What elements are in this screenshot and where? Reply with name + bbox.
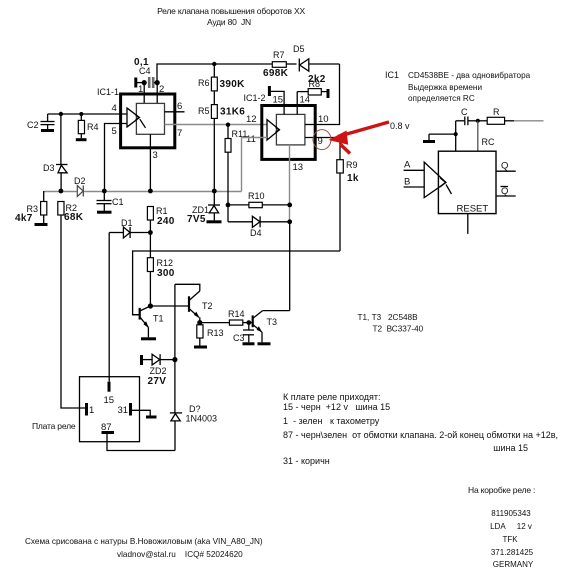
resistor R5 (198, 91, 245, 205)
svg-text:C1: C1 (112, 197, 124, 207)
relay board box (32, 377, 140, 442)
svg-text:R14: R14 (228, 309, 245, 319)
terminal right of R8 (327, 89, 330, 98)
node RC junction (476, 119, 480, 123)
mono diagram ground (423, 134, 435, 141)
pin 9 wire (305, 136, 340, 147)
input A wire (404, 160, 425, 171)
resistor R3 (15, 191, 47, 224)
svg-text:LDA 12 v: LDA 12 v (490, 522, 532, 531)
svg-text:D?: D? (189, 404, 201, 414)
resistor R14 (200, 309, 253, 325)
wire D3 branch vertical (60, 114, 62, 165)
wire T2 loop vertical to ZD2/D? (174, 284, 176, 413)
svg-text:0.8 v: 0.8 v (390, 121, 410, 131)
node T1 collector / T2 base junction (148, 303, 153, 308)
svg-text:9: 9 (318, 136, 323, 147)
svg-text:1N4003: 1N4003 (186, 414, 218, 424)
transistor T1 (133, 306, 164, 337)
svg-text:D2: D2 (74, 176, 86, 186)
svg-text:15: 15 (273, 95, 284, 106)
capacitor C1 (97, 191, 124, 211)
svg-text:определяется RC: определяется RC (408, 94, 475, 103)
node pin3/R1 junction (148, 189, 153, 194)
resistor R11 (225, 125, 247, 205)
svg-text:Q: Q (501, 186, 508, 197)
pin 1 label and wire (138, 83, 144, 104)
svg-text:R1: R1 (156, 206, 168, 216)
node R11 top (226, 123, 230, 127)
node junction top rail / R6 (212, 62, 216, 66)
svg-text:R4: R4 (87, 122, 99, 132)
wire T2 base (150, 305, 189, 307)
wire RC vertical (478, 121, 495, 151)
svg-text:T3: T3 (267, 317, 278, 327)
svg-text:Плата реле: Плата реле (32, 421, 76, 431)
wire T2 collector loop (175, 284, 200, 291)
svg-text:Т1, Т3 2С548В: Т1, Т3 2С548В (358, 313, 419, 322)
ground below C2 (41, 129, 54, 132)
svg-text:12: 12 (246, 114, 257, 125)
svg-text:4k7: 4k7 (15, 213, 33, 224)
svg-text:15: 15 (104, 395, 115, 406)
svg-text:87: 87 (101, 422, 112, 433)
wire pin 11 gray (242, 138, 268, 192)
pin 2 label and wire (157, 83, 164, 104)
relay pin 15 (104, 382, 115, 406)
ground below R4 (76, 138, 87, 141)
output Q-bar wire (496, 186, 516, 197)
ground below T1 (141, 337, 156, 340)
ground right of pin 31 (146, 416, 157, 419)
pin 10 wire (305, 114, 329, 125)
monostable box (438, 151, 496, 213)
IC1-2 inner box (276, 114, 305, 144)
wire D1 to relay pin 15 (108, 233, 110, 382)
svg-text:5: 5 (112, 126, 117, 137)
svg-text:87 - черн\зелен от обмотки кл: 87 - черн\зелен от обмотки клапана. 2-ой… (283, 430, 558, 440)
svg-text:vladnov@stal.ru ICQ# 520246: vladnov@stal.ru ICQ# 52024620 (117, 550, 243, 559)
relay pin 87 (101, 422, 114, 433)
diode D4 (228, 205, 290, 238)
svg-text:1k: 1k (347, 173, 359, 184)
wire T3 collector (263, 310, 290, 312)
ground below C3 (243, 342, 255, 345)
text relay wiring notes (283, 392, 558, 466)
svg-text:27V: 27V (148, 376, 167, 387)
svg-text:C2: C2 (27, 120, 39, 130)
resistor R (478, 107, 544, 124)
capacitor C (456, 107, 478, 125)
svg-text:C4: C4 (139, 66, 151, 76)
node C1/pin5 junction (102, 189, 107, 194)
svg-text:240: 240 (157, 216, 175, 227)
red arrow to pin 9 (329, 122, 390, 154)
resistor R4 (78, 114, 98, 138)
svg-text:1: 1 (89, 405, 94, 416)
diode D? 1N4003 (170, 404, 217, 451)
svg-text:31 - коричн: 31 - коричн (283, 456, 330, 466)
svg-text:T2: T2 (202, 301, 213, 311)
svg-text:6: 6 (177, 101, 182, 112)
svg-text:T1: T1 (153, 314, 164, 324)
IC1-1 inner box (136, 103, 164, 134)
svg-text:68K: 68K (64, 212, 84, 223)
wire C node vertical (455, 121, 457, 151)
svg-text:300: 300 (157, 268, 175, 279)
capacitor C2 (27, 114, 55, 130)
input B wire (404, 177, 425, 188)
ground below T3 (258, 342, 271, 345)
svg-text:D4: D4 (250, 228, 262, 238)
zener diode ZD1 (187, 205, 220, 225)
terminal left of ZD2 (140, 355, 143, 365)
node D2/R2 junction (59, 189, 64, 194)
ground below R13 (194, 346, 207, 349)
svg-text:RC: RC (482, 137, 495, 147)
svg-text:IC1-1: IC1-1 (97, 87, 119, 97)
red ellipse around pin 9 (313, 130, 331, 150)
resistor R2 (58, 202, 84, 224)
svg-text:7V5: 7V5 (187, 214, 206, 225)
text IC1 CD4538 description (385, 70, 531, 103)
resistor R1 (147, 206, 174, 258)
svg-text:10: 10 (318, 114, 329, 125)
terminal pin 15 (269, 86, 284, 114)
resistor R8 (297, 74, 326, 95)
svg-text:13: 13 (293, 162, 304, 173)
output Q wire (496, 161, 516, 172)
svg-text:7: 7 (177, 128, 182, 139)
node R10 left (226, 203, 231, 208)
pin 4 wire from C2 node (48, 103, 127, 114)
resistor R13 (197, 323, 224, 346)
wire ground to C node (429, 133, 456, 135)
pin 14 wire (297, 92, 310, 115)
svg-text:11: 11 (246, 134, 256, 145)
svg-text:R7: R7 (273, 50, 285, 60)
wire pin13 to T3 collector (289, 222, 291, 311)
node D4 right on pin13 line (287, 219, 292, 224)
reset pin wire (467, 214, 469, 234)
svg-text:На коробке реле :: На коробке реле : (468, 485, 535, 495)
diode D5 (293, 44, 309, 72)
svg-text:RESET: RESET (457, 204, 489, 215)
svg-text:R12: R12 (157, 258, 174, 268)
node R10 right on pin13 line (287, 203, 292, 208)
resistor R10 (228, 191, 290, 208)
svg-text:R8: R8 (309, 79, 321, 89)
IC1-1 comparator triangle (127, 108, 146, 128)
wire D5 to pin10 corner (315, 64, 339, 125)
text transistor types (358, 313, 424, 334)
diode D2 (74, 176, 86, 197)
svg-text:Выдержка времени: Выдержка времени (408, 83, 482, 92)
diode D1 (109, 218, 150, 238)
svg-text:4: 4 (112, 103, 117, 114)
svg-text:CD4538ВЕ - два одновибратора: CD4538ВЕ - два одновибратора (408, 71, 531, 80)
svg-text:D3: D3 (43, 163, 55, 173)
capacitor C3 (233, 323, 254, 343)
svg-text:К плате реле приходят:: К плате реле приходят: (283, 392, 381, 402)
pin 13 wire gray down (290, 145, 304, 222)
op-amp IC1-2 outer box (244, 93, 316, 159)
svg-text:390K: 390K (220, 79, 246, 90)
svg-text:шина 15: шина 15 (493, 443, 528, 453)
resistor R7 (263, 50, 289, 79)
svg-text:IC1: IC1 (385, 70, 399, 80)
svg-text:811905343: 811905343 (491, 509, 531, 518)
svg-text:1 - зелен к тахометру: 1 - зелен к тахометру (283, 416, 380, 426)
svg-text:C3: C3 (233, 333, 245, 343)
svg-text:Реле клапана повышения оборото: Реле клапана повышения оборотов XX (157, 6, 305, 16)
ground below C1 (97, 211, 112, 214)
text footer credit (25, 537, 263, 559)
svg-text:371.281425: 371.281425 (491, 548, 534, 557)
pin 3 wire down (150, 134, 157, 191)
svg-text:Ауди 80 JN: Ауди 80 JN (207, 17, 251, 27)
node C left (454, 132, 458, 136)
svg-text:C: C (461, 107, 468, 117)
capacitor C4 with terminal (134, 57, 157, 88)
node ZD2 right (172, 357, 177, 362)
node R4 top (79, 112, 83, 116)
ground below ZD1 (207, 220, 222, 223)
svg-text:TFK: TFK (502, 535, 518, 544)
ground below R3 (35, 223, 48, 226)
svg-text:Схема срисована с натуры В.Нов: Схема срисована с натуры В.Новожиловым (… (25, 537, 263, 546)
node T2 emitter / R13 / R14 (197, 320, 202, 325)
resistor R9 (337, 138, 359, 185)
wire R9 down to long rail (339, 173, 341, 251)
text relay box markings (468, 485, 535, 569)
svg-text:B: B (404, 177, 410, 188)
svg-text:GERMANY: GERMANY (493, 560, 534, 569)
title text (157, 6, 305, 27)
zener diode ZD2 (143, 354, 175, 387)
svg-text:14: 14 (300, 95, 311, 106)
pin 5 wire (105, 124, 128, 192)
svg-text:R: R (493, 107, 500, 117)
svg-text:31K6: 31K6 (220, 107, 245, 118)
svg-text:ZD2: ZD2 (150, 366, 167, 376)
svg-text:R11: R11 (232, 129, 248, 139)
svg-text:R5: R5 (198, 106, 210, 116)
resistor R12 (147, 258, 174, 306)
node D1 right (148, 230, 153, 235)
relay pin 31 (118, 403, 131, 416)
transistor T3 (253, 311, 277, 343)
wire R2 down to relay pin1 (61, 215, 85, 408)
svg-text:IC1-2: IC1-2 (244, 93, 266, 103)
svg-text:31: 31 (118, 405, 129, 416)
node C2/D3 junction (59, 112, 63, 116)
resistor R6 (198, 64, 245, 91)
diode D3 zener vertical (43, 163, 68, 192)
svg-text:R9: R9 (346, 160, 358, 170)
op-amp IC1-1 outer box (97, 87, 175, 148)
wire gray rail y191 (44, 191, 242, 193)
relay pin 1 (87, 403, 95, 416)
node pin2 top (155, 80, 160, 85)
svg-text:A: A (404, 160, 411, 171)
pin 7 wire gray to IC1-2 pin 12 (165, 125, 268, 140)
svg-text:15 - черн +12 v шина 15: 15 - черн +12 v шина 15 (283, 402, 390, 412)
svg-text:R13: R13 (207, 328, 224, 338)
node C3 / T3 base (246, 320, 251, 325)
node R5/ZD1 junction (212, 189, 217, 194)
svg-text:D1: D1 (121, 218, 133, 228)
svg-text:698K: 698K (263, 68, 289, 79)
wire top rail from C4/pin2 to D5 corner (157, 64, 340, 83)
wire long rail to T1 base (133, 251, 340, 315)
svg-text:Q: Q (501, 161, 508, 172)
node pin1 top (142, 80, 147, 85)
monostable input triangle (424, 162, 451, 198)
svg-text:R10: R10 (248, 191, 265, 201)
IC1-2 comparator triangle (267, 120, 280, 140)
svg-text:Т2 ВС337-40: Т2 ВС337-40 (373, 325, 424, 334)
pin 6 stub (165, 101, 185, 112)
transistor T2 (189, 291, 213, 323)
wire pin 87 to D? (107, 434, 175, 451)
wire pin 31 to ground (132, 410, 150, 415)
svg-text:3: 3 (153, 150, 158, 161)
svg-text:R6: R6 (198, 78, 210, 88)
svg-text:D5: D5 (293, 44, 305, 54)
